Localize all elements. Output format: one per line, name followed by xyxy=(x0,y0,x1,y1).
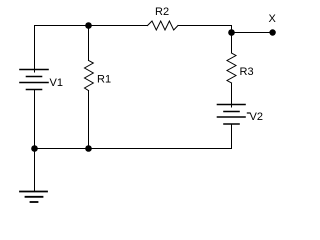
resistor R1 xyxy=(85,60,94,90)
wire node to terminal X xyxy=(232,32,273,34)
resistor R2 xyxy=(148,21,179,30)
node D (bottom rail / R1) xyxy=(85,145,92,152)
battery V2 xyxy=(218,105,246,125)
svg-text:V2: V2 xyxy=(250,111,263,123)
wire bottom rail xyxy=(35,148,232,150)
node A (top junction V1/R1/R2) xyxy=(85,22,92,29)
wire top rail left (node to R2) xyxy=(35,25,148,27)
wire R1 bottom xyxy=(88,91,90,149)
wire V1 bottom xyxy=(34,90,36,149)
node C (bottom rail / V1 / ground) xyxy=(31,145,38,152)
svg-text:X: X xyxy=(269,13,277,25)
battery V1 xyxy=(20,70,48,90)
svg-text:V1: V1 xyxy=(50,77,63,89)
wire R3 top xyxy=(231,33,233,54)
svg-text:R2: R2 xyxy=(155,6,169,18)
wire R1 top xyxy=(88,26,90,61)
svg-text:R3: R3 xyxy=(240,66,254,78)
wire R2 to corner jog xyxy=(178,26,232,33)
ground xyxy=(20,192,47,203)
terminal X dot xyxy=(269,29,275,35)
node B (R2/R3/X junction) xyxy=(228,29,235,36)
wire R3 to V2 xyxy=(231,83,233,107)
wire left rail top xyxy=(34,26,36,73)
wire ground stem xyxy=(34,149,36,192)
wire V2 bottom xyxy=(231,125,233,149)
resistor R3 xyxy=(227,53,236,83)
svg-text:R1: R1 xyxy=(97,74,111,86)
label V2 polarity tick xyxy=(247,112,250,113)
